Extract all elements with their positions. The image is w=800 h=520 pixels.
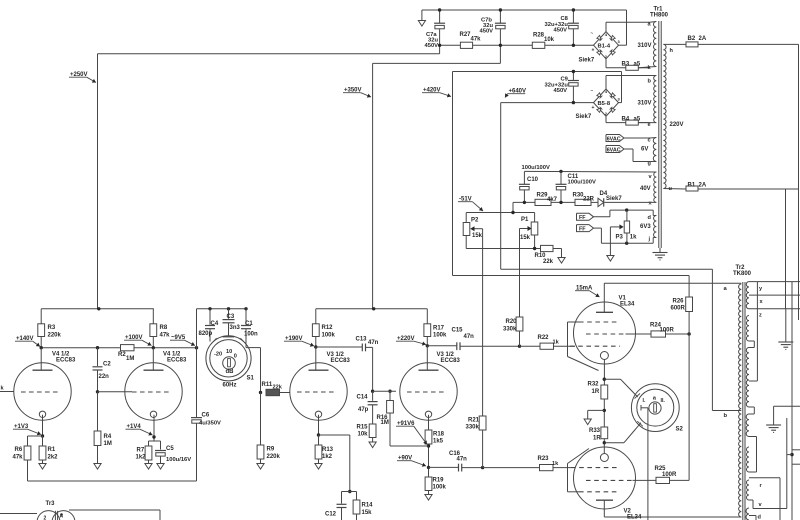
svg-text:0: 0 bbox=[234, 354, 237, 360]
svg-text:10: 10 bbox=[226, 349, 232, 355]
svg-text:P2: P2 bbox=[471, 218, 479, 224]
svg-text:C10: C10 bbox=[527, 177, 539, 183]
svg-text:C4: C4 bbox=[211, 321, 219, 327]
svg-text:1k: 1k bbox=[630, 235, 637, 241]
svg-text:310V: 310V bbox=[638, 101, 652, 107]
svg-text:C12: C12 bbox=[325, 512, 337, 518]
svg-text:600R: 600R bbox=[671, 306, 686, 312]
svg-text:II.: II. bbox=[661, 398, 666, 404]
svg-text:B1: B1 bbox=[688, 183, 696, 189]
svg-text:1M: 1M bbox=[381, 420, 389, 426]
svg-text:R12: R12 bbox=[322, 325, 334, 331]
svg-text:u: u bbox=[669, 186, 673, 192]
svg-text:100u/16V: 100u/16V bbox=[166, 457, 191, 463]
svg-text:B5-8: B5-8 bbox=[598, 101, 611, 107]
svg-text:R23: R23 bbox=[538, 456, 550, 462]
svg-text:C1: C1 bbox=[245, 321, 253, 327]
svg-text:1M: 1M bbox=[104, 441, 112, 447]
svg-text:TH800: TH800 bbox=[650, 13, 669, 19]
svg-text:a5: a5 bbox=[634, 116, 641, 122]
svg-text:R18: R18 bbox=[433, 432, 445, 438]
svg-text:1k: 1k bbox=[552, 461, 559, 467]
svg-text:R6: R6 bbox=[15, 447, 23, 453]
svg-text:47k: 47k bbox=[471, 37, 482, 43]
svg-text:P1: P1 bbox=[521, 217, 529, 223]
svg-text:R28: R28 bbox=[533, 33, 545, 39]
svg-text:EL34: EL34 bbox=[627, 515, 642, 520]
svg-text:R20: R20 bbox=[506, 319, 518, 325]
svg-text:47n: 47n bbox=[457, 457, 468, 463]
svg-text:C3: C3 bbox=[227, 314, 235, 320]
svg-text:EL34: EL34 bbox=[620, 302, 635, 308]
svg-text:Siek7: Siek7 bbox=[579, 58, 595, 64]
svg-text:1k: 1k bbox=[553, 340, 560, 346]
svg-text:220k: 220k bbox=[267, 454, 281, 460]
svg-text:47p: 47p bbox=[358, 407, 369, 413]
svg-text:Siek7: Siek7 bbox=[606, 196, 622, 202]
svg-text:450V: 450V bbox=[554, 28, 568, 34]
svg-text:R33: R33 bbox=[589, 428, 601, 434]
svg-text:R9: R9 bbox=[267, 447, 275, 453]
svg-text:ECC83: ECC83 bbox=[167, 358, 187, 364]
svg-text:1R: 1R bbox=[592, 389, 600, 395]
svg-text:ECC83: ECC83 bbox=[331, 358, 351, 364]
svg-text:330k: 330k bbox=[503, 327, 517, 333]
svg-text:P3: P3 bbox=[616, 235, 624, 241]
svg-text:dB: dB bbox=[226, 369, 235, 375]
svg-text:B4: B4 bbox=[622, 116, 630, 122]
svg-text:R11: R11 bbox=[262, 382, 273, 388]
svg-text:~: ~ bbox=[591, 88, 594, 93]
svg-text:22k: 22k bbox=[543, 259, 554, 265]
svg-text:100R: 100R bbox=[660, 328, 675, 334]
svg-text:R4: R4 bbox=[104, 434, 112, 440]
svg-text:100n: 100n bbox=[244, 332, 258, 338]
svg-text:R8: R8 bbox=[160, 325, 168, 331]
svg-text:a5: a5 bbox=[634, 62, 641, 68]
svg-text:2k2: 2k2 bbox=[48, 455, 59, 461]
svg-text:330k: 330k bbox=[466, 425, 480, 431]
svg-text:B1-4: B1-4 bbox=[598, 43, 611, 49]
svg-text:100k: 100k bbox=[433, 485, 447, 491]
svg-text:Siek7: Siek7 bbox=[576, 114, 592, 120]
svg-text:1k5: 1k5 bbox=[433, 439, 444, 445]
svg-text:R17: R17 bbox=[433, 326, 445, 332]
svg-text:R7: R7 bbox=[137, 448, 145, 454]
svg-text:220V: 220V bbox=[670, 122, 684, 128]
svg-text:R14: R14 bbox=[362, 503, 374, 509]
svg-text:2: 2 bbox=[44, 516, 47, 520]
svg-text:47n: 47n bbox=[368, 340, 379, 346]
svg-text:TK800: TK800 bbox=[733, 271, 752, 277]
svg-text:~: ~ bbox=[591, 31, 594, 36]
svg-text:60Hz: 60Hz bbox=[223, 383, 237, 389]
svg-text:100u/100V: 100u/100V bbox=[522, 165, 550, 171]
svg-text:10k: 10k bbox=[544, 37, 555, 43]
svg-text:820p: 820p bbox=[199, 331, 213, 337]
svg-text:450V: 450V bbox=[425, 43, 439, 49]
svg-text:B2: B2 bbox=[688, 36, 696, 42]
svg-text:450V: 450V bbox=[554, 88, 568, 94]
svg-text:R22: R22 bbox=[538, 335, 550, 341]
svg-text:100k: 100k bbox=[433, 333, 447, 339]
svg-text:C15: C15 bbox=[452, 328, 464, 334]
svg-text:S1: S1 bbox=[247, 376, 255, 382]
svg-text:+: + bbox=[592, 105, 595, 111]
svg-text:b: b bbox=[648, 79, 652, 85]
svg-text:C5: C5 bbox=[166, 446, 174, 452]
svg-text:S2: S2 bbox=[676, 427, 684, 433]
svg-text:100u/100V: 100u/100V bbox=[568, 180, 596, 186]
svg-text:R32: R32 bbox=[588, 382, 600, 388]
svg-text:1R: 1R bbox=[593, 436, 601, 442]
svg-text:47k: 47k bbox=[13, 455, 24, 461]
svg-text:FF: FF bbox=[579, 226, 586, 232]
svg-text:220k: 220k bbox=[48, 332, 62, 338]
svg-text:R21: R21 bbox=[468, 418, 480, 424]
svg-text:z: z bbox=[759, 313, 762, 319]
svg-text:R19: R19 bbox=[433, 478, 445, 484]
svg-text:6V3: 6V3 bbox=[640, 224, 651, 230]
svg-text:310V: 310V bbox=[638, 43, 652, 49]
svg-text:1k2: 1k2 bbox=[322, 454, 333, 460]
svg-text:6VAC: 6VAC bbox=[607, 147, 621, 153]
svg-text:10k: 10k bbox=[358, 432, 369, 438]
svg-text:4k7: 4k7 bbox=[547, 197, 558, 203]
svg-text:22R: 22R bbox=[583, 197, 595, 203]
svg-text:40V: 40V bbox=[640, 186, 651, 192]
svg-text:3n3: 3n3 bbox=[230, 325, 241, 331]
svg-text:FF: FF bbox=[579, 215, 586, 221]
svg-text:R15: R15 bbox=[357, 425, 369, 431]
svg-text:15k: 15k bbox=[472, 233, 483, 239]
svg-text:1M: 1M bbox=[126, 356, 134, 362]
svg-text:2A: 2A bbox=[699, 36, 707, 42]
svg-text:R3: R3 bbox=[48, 325, 56, 331]
svg-text:15k: 15k bbox=[362, 510, 373, 516]
svg-text:Tr3: Tr3 bbox=[46, 501, 56, 507]
svg-text:6V: 6V bbox=[641, 147, 648, 153]
svg-text:6VAC: 6VAC bbox=[607, 136, 621, 142]
svg-text:C14: C14 bbox=[357, 395, 369, 401]
svg-text:47k: 47k bbox=[160, 332, 171, 338]
svg-text:e: e bbox=[648, 122, 651, 128]
svg-text:22k: 22k bbox=[273, 385, 283, 391]
svg-text:R26: R26 bbox=[673, 299, 685, 305]
svg-text:+: + bbox=[592, 48, 595, 54]
svg-text:15k: 15k bbox=[520, 235, 531, 241]
svg-text:2A: 2A bbox=[699, 183, 707, 189]
svg-text:-20: -20 bbox=[214, 352, 222, 358]
svg-text:4u/350V: 4u/350V bbox=[199, 421, 221, 427]
svg-text:22n: 22n bbox=[99, 374, 110, 380]
svg-text:C2: C2 bbox=[103, 362, 111, 368]
svg-text:R27: R27 bbox=[460, 32, 472, 38]
svg-text:R13: R13 bbox=[322, 447, 334, 453]
svg-text:47n: 47n bbox=[464, 334, 475, 340]
svg-text:h: h bbox=[670, 48, 674, 54]
svg-text:450V: 450V bbox=[480, 29, 494, 35]
svg-text:ECC83: ECC83 bbox=[56, 358, 76, 364]
svg-text:j: j bbox=[648, 237, 651, 243]
svg-text:b: b bbox=[724, 413, 728, 419]
svg-text:100k: 100k bbox=[322, 332, 336, 338]
svg-text:1k2: 1k2 bbox=[136, 455, 147, 461]
svg-text:d: d bbox=[758, 515, 762, 520]
svg-text:ECC83: ECC83 bbox=[441, 358, 461, 364]
svg-text:B3: B3 bbox=[622, 62, 630, 68]
svg-text:C13: C13 bbox=[356, 337, 368, 343]
svg-text:d: d bbox=[648, 215, 652, 221]
svg-text:C6: C6 bbox=[202, 413, 210, 419]
svg-text:R1: R1 bbox=[48, 447, 56, 453]
svg-text:100R: 100R bbox=[662, 472, 677, 478]
